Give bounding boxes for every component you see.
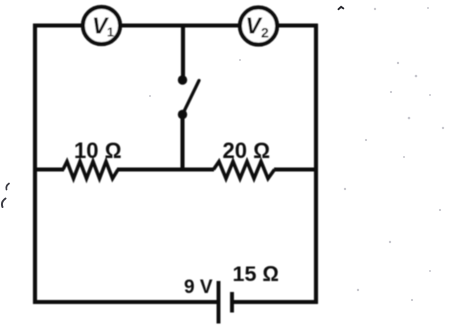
battery negative short plate bbox=[230, 292, 234, 313]
wire: top side of loop bbox=[33, 23, 318, 27]
wire: right side of loop bbox=[314, 24, 318, 304]
svg-text:9 V: 9 V bbox=[184, 277, 213, 298]
wire: bottom left segment to battery bbox=[33, 300, 217, 304]
wire: bottom right segment from battery bbox=[234, 300, 318, 304]
svg-text:20 Ω: 20 Ω bbox=[223, 138, 270, 163]
svg-text:15 Ω: 15 Ω bbox=[233, 262, 279, 286]
voltmeter V1 bbox=[83, 7, 120, 44]
wire: switch branch lower vertical bbox=[180, 114, 184, 171]
resistor R1 10 ohm zigzag bbox=[63, 162, 118, 179]
voltmeter V2 bbox=[240, 7, 277, 44]
resistor R2 20 ohm zigzag bbox=[214, 162, 275, 179]
svg-text:10 Ω: 10 Ω bbox=[74, 138, 121, 163]
battery positive long plate bbox=[217, 281, 221, 324]
wire: middle horizontal right stub bbox=[274, 168, 318, 172]
wire: middle horizontal left stub bbox=[33, 168, 64, 172]
switch S (open) bbox=[178, 75, 199, 119]
wire: left side of loop bbox=[33, 24, 37, 304]
svg-text:1: 1 bbox=[107, 26, 114, 40]
svg-text:V: V bbox=[246, 13, 263, 39]
svg-text:2: 2 bbox=[261, 25, 269, 41]
wire: switch branch upper vertical bbox=[181, 24, 185, 80]
wire: middle horizontal centre segment between resistors bbox=[117, 168, 214, 172]
